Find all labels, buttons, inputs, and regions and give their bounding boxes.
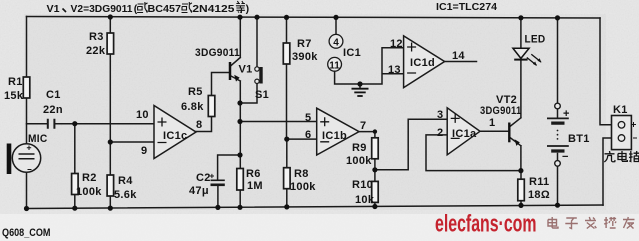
- svg-text:1: 1: [489, 117, 495, 129]
- svg-text:R11: R11: [529, 176, 549, 188]
- svg-text:R4: R4: [118, 175, 133, 187]
- svg-text:10k: 10k: [355, 194, 375, 206]
- svg-text:R1: R1: [8, 76, 23, 88]
- svg-text:V1: V1: [47, 3, 60, 15]
- svg-text:R9: R9: [352, 142, 367, 154]
- svg-text:IC1b: IC1b: [322, 130, 347, 142]
- svg-text:3: 3: [437, 109, 443, 121]
- svg-text:R10: R10: [352, 179, 373, 191]
- svg-text:IC1=TLC274: IC1=TLC274: [436, 1, 497, 13]
- svg-text:4: 4: [333, 37, 339, 48]
- svg-text:R5: R5: [188, 86, 203, 98]
- svg-text:15k: 15k: [4, 90, 24, 102]
- svg-text:12: 12: [390, 38, 403, 50]
- svg-text:BC457: BC457: [148, 3, 182, 15]
- svg-text:): ): [246, 3, 250, 15]
- svg-text:V1: V1: [239, 64, 253, 76]
- svg-text:6: 6: [305, 129, 311, 141]
- svg-text:7: 7: [360, 120, 366, 132]
- svg-text:100k: 100k: [76, 186, 102, 198]
- svg-text:R8: R8: [294, 168, 309, 180]
- svg-text:BT1: BT1: [568, 133, 590, 145]
- svg-text:11: 11: [329, 60, 340, 71]
- svg-text:2N4125: 2N4125: [192, 3, 234, 15]
- svg-text:Q608_COM: Q608_COM: [2, 227, 51, 239]
- svg-text:IC1c: IC1c: [163, 130, 187, 142]
- svg-text:elecfans·com: elecfans·com: [435, 211, 537, 238]
- svg-text:S1: S1: [255, 89, 269, 101]
- svg-text:100k: 100k: [346, 155, 372, 167]
- svg-text:8: 8: [196, 119, 202, 131]
- svg-text:V2=3DG9011: V2=3DG9011: [71, 3, 133, 15]
- svg-text:IC1: IC1: [343, 47, 361, 59]
- svg-text:MIC: MIC: [28, 133, 48, 145]
- svg-text:+: +: [563, 108, 570, 120]
- svg-text:13: 13: [388, 64, 401, 76]
- svg-text:14: 14: [452, 50, 465, 62]
- svg-text:R3: R3: [89, 31, 104, 43]
- svg-text:18Ω: 18Ω: [528, 189, 550, 201]
- svg-text:R2: R2: [82, 172, 97, 184]
- svg-text:47μ: 47μ: [189, 185, 209, 197]
- svg-text:1M: 1M: [247, 180, 263, 192]
- svg-text:3DG9011: 3DG9011: [195, 47, 240, 59]
- svg-text:6.8k: 6.8k: [181, 101, 204, 113]
- svg-text:22n: 22n: [43, 104, 63, 116]
- svg-text:IC1a: IC1a: [452, 128, 477, 140]
- svg-text:3DG9011: 3DG9011: [480, 105, 522, 117]
- svg-text:100k: 100k: [290, 181, 316, 193]
- svg-text:C1: C1: [46, 89, 61, 101]
- svg-text:390k: 390k: [292, 51, 318, 63]
- svg-text:2: 2: [437, 127, 443, 139]
- svg-text:C2: C2: [196, 172, 211, 184]
- svg-text:22k: 22k: [86, 45, 106, 57]
- svg-text:5: 5: [305, 112, 311, 124]
- svg-text:IC1d: IC1d: [410, 57, 435, 69]
- svg-text:R6: R6: [246, 168, 261, 180]
- svg-text:10: 10: [136, 109, 149, 121]
- svg-text:R7: R7: [297, 38, 312, 50]
- svg-text:K1: K1: [613, 104, 628, 116]
- svg-text:5.6k: 5.6k: [114, 189, 137, 201]
- svg-text:9: 9: [141, 145, 147, 157]
- svg-text:LED: LED: [525, 34, 546, 46]
- svg-text:−: −: [562, 151, 569, 163]
